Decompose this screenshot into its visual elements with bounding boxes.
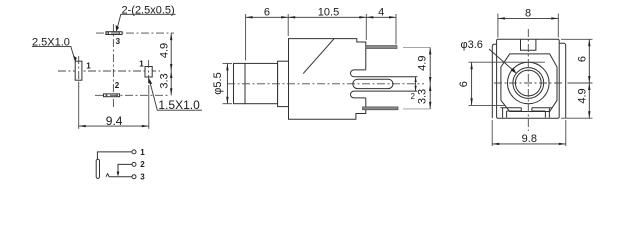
upper slot (351, 70, 418, 77)
dimension 2 (prong thickness) (411, 77, 417, 102)
pin 3 top pad (96, 32, 174, 35)
sleeve bar (96, 159, 99, 178)
middle circle (513, 68, 544, 99)
left ear (492, 44, 496, 118)
wire to terminal 1 (97, 152, 131, 159)
dimension 4.9 / 3.3 (middle view right) (416, 47, 431, 109)
svg-text:4.9: 4.9 (576, 88, 588, 103)
front flange (234, 63, 246, 103)
right ear (559, 43, 566, 118)
svg-text:1: 1 (86, 61, 91, 70)
dimension 4.9 / 3.3 (left view right side) (158, 33, 172, 95)
base details (500, 108, 551, 118)
bottom pin (363, 107, 431, 110)
crosshair over circle (494, 29, 563, 131)
top pin (366, 46, 430, 49)
svg-text:2: 2 (411, 92, 416, 101)
top tab notch (521, 39, 536, 50)
svg-text:3: 3 (116, 37, 121, 46)
body outline (497, 39, 560, 118)
barrel (245, 63, 278, 103)
svg-text:6: 6 (458, 81, 470, 87)
svg-text:4.9: 4.9 (158, 43, 170, 58)
leader 2.5X1.0 (32, 37, 77, 62)
boss octagon (501, 54, 557, 112)
leader 1.5X1.0 (148, 78, 202, 112)
pin 1 left pad (75, 56, 82, 87)
svg-text:3: 3 (140, 173, 145, 182)
dimension phi5.5 (left) (212, 63, 232, 103)
svg-text:10.5: 10.5 (318, 6, 339, 18)
bushing (278, 61, 289, 106)
terminal 1 circle (132, 150, 136, 154)
terminal 2 circle (132, 162, 136, 166)
leader phi3.6 (461, 39, 517, 74)
centerline (227, 83, 424, 85)
center prong (tip contact) (353, 79, 393, 88)
svg-text:4: 4 (378, 6, 384, 18)
terminal 3 circle (132, 175, 136, 179)
svg-text:6: 6 (264, 6, 270, 18)
outer circle (508, 62, 550, 104)
leader 2-(2.5x0.5) (116, 4, 176, 31)
svg-text:4.9: 4.9 (416, 56, 428, 71)
svg-text:9.8: 9.8 (522, 133, 537, 145)
svg-text:2: 2 (140, 160, 145, 169)
body outline (289, 39, 366, 120)
dimension 6 / 4.9 (right side) (561, 39, 593, 118)
dimension 6 (left of right view) (458, 62, 545, 105)
svg-text:3.3: 3.3 (158, 73, 170, 88)
dimension 8 (top) (498, 7, 558, 37)
body chamfer edge (303, 39, 334, 74)
svg-text:1: 1 (140, 148, 145, 157)
svg-text:8: 8 (525, 7, 531, 19)
svg-text:1: 1 (139, 60, 144, 69)
inner circle (515, 70, 541, 96)
centerline vertical (112, 24, 114, 109)
svg-text:9.4: 9.4 (106, 114, 123, 128)
pin 2 bottom pad (95, 94, 168, 97)
dimension 6 / 10.5 / 4 (top) (246, 6, 396, 60)
svg-text:2: 2 (115, 81, 120, 90)
lower slot (351, 91, 418, 98)
dimension 9.4 (79, 83, 149, 129)
wire from terminal 3 with contact caret (106, 174, 132, 177)
wire from terminal 2 with arrow (118, 164, 132, 173)
svg-text:6: 6 (576, 56, 588, 62)
dimension 9.8 (bottom) (492, 120, 566, 146)
centerline horizontal (58, 70, 160, 72)
svg-text:3.3: 3.3 (416, 89, 428, 104)
svg-text:φ5.5: φ5.5 (212, 72, 224, 94)
svg-text:φ3.6: φ3.6 (461, 39, 483, 51)
pin 1 right pad (145, 60, 152, 83)
